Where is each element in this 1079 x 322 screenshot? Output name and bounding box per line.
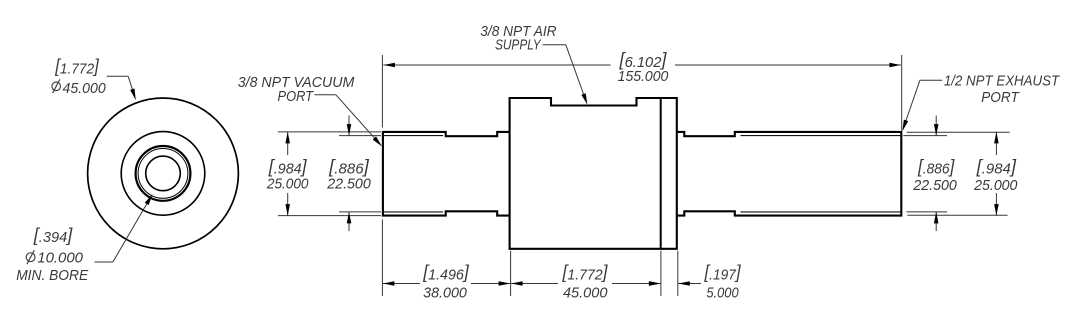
- leader for vacuum port: [315, 94, 336, 96]
- svg-text:SUPPLY: SUPPLY: [495, 37, 541, 54]
- side view: right thread root lines: [741, 135, 902, 137]
- svg-text:22.500: 22.500: [912, 177, 957, 194]
- leader for air supply: [543, 44, 566, 46]
- side view: right threaded stub (exhaust) outline: [677, 132, 902, 216]
- svg-text:PORT: PORT: [981, 89, 1020, 106]
- svg-text:5.000: 5.000: [706, 285, 739, 302]
- dimension [1.772] 45.000: [511, 283, 558, 285]
- svg-text:MIN. BORE: MIN. BORE: [16, 267, 89, 284]
- bottom extension lines: [381, 220, 383, 297]
- dimension [6.102] 155.000 overall length: [381, 55, 383, 128]
- leader for Ø45.000: [107, 75, 129, 77]
- dimension [.984] 25.000 left: [287, 132, 289, 155]
- dimension [1.496] 38.000: [383, 283, 420, 285]
- svg-text:25.000: 25.000: [266, 176, 309, 193]
- front view: port boss inner circle: [138, 149, 188, 199]
- side view: end plate divider line: [660, 98, 662, 249]
- svg-text:25.000: 25.000: [973, 177, 1018, 194]
- extension lines right 22.5 (thread root): [903, 135, 947, 137]
- dimension [.984] 25.000 right: [995, 132, 997, 155]
- side view: center block with air supply notch: [510, 98, 677, 249]
- front view: bore circle Ø10: [146, 156, 181, 191]
- dimension [.197] 5.000 (end plate): [649, 283, 660, 285]
- leader for exhaust port: [920, 79, 943, 81]
- side view: left thread root lines: [383, 135, 443, 137]
- svg-text:PORT: PORT: [278, 88, 315, 105]
- svg-text:45.000: 45.000: [563, 285, 608, 302]
- dimension [.886] 22.500 left: [348, 116, 350, 136]
- side view: left threaded stub (vacuum port) outline: [383, 132, 510, 216]
- extension lines right OD 25: [907, 131, 1010, 133]
- extension lines left OD 25: [278, 131, 381, 133]
- front view: barrel circle Ø25: [121, 132, 205, 216]
- leader for MIN. BORE: [95, 261, 113, 263]
- svg-text:1/2 NPT EXHAUST: 1/2 NPT EXHAUST: [944, 72, 1061, 89]
- svg-text:10.000: 10.000: [37, 249, 83, 266]
- dimension [.886] 22.500 right: [935, 116, 937, 136]
- svg-text:155.000: 155.000: [618, 68, 669, 85]
- svg-text:45.000: 45.000: [63, 80, 107, 97]
- front view: port boss outer circle: [136, 146, 191, 201]
- svg-text:38.000: 38.000: [423, 285, 467, 302]
- front view: outer flange circle Ø45: [88, 98, 239, 249]
- svg-text:22.500: 22.500: [326, 176, 371, 193]
- extension lines left 22.5: [339, 135, 381, 137]
